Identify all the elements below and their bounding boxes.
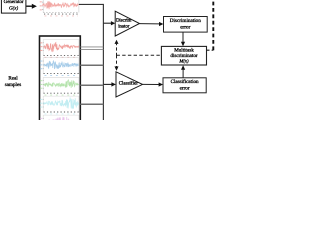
svg-text:samples: samples (5, 82, 21, 88)
svg-text:Classification: Classification (171, 79, 199, 85)
svg-text:G(x): G(x) (9, 6, 18, 12)
svg-text:M(x): M(x) (178, 58, 189, 64)
svg-text:Generator: Generator (4, 0, 24, 5)
svg-text:error: error (180, 86, 190, 92)
svg-text:Discrimination: Discrimination (170, 18, 202, 24)
svg-text:Real: Real (8, 76, 18, 82)
svg-text:discriminator: discriminator (170, 53, 197, 59)
svg-text:error: error (180, 24, 190, 30)
svg-text:Discrim: Discrim (116, 17, 132, 23)
svg-text:Classifier: Classifier (119, 81, 138, 87)
svg-text:inator: inator (118, 24, 130, 30)
